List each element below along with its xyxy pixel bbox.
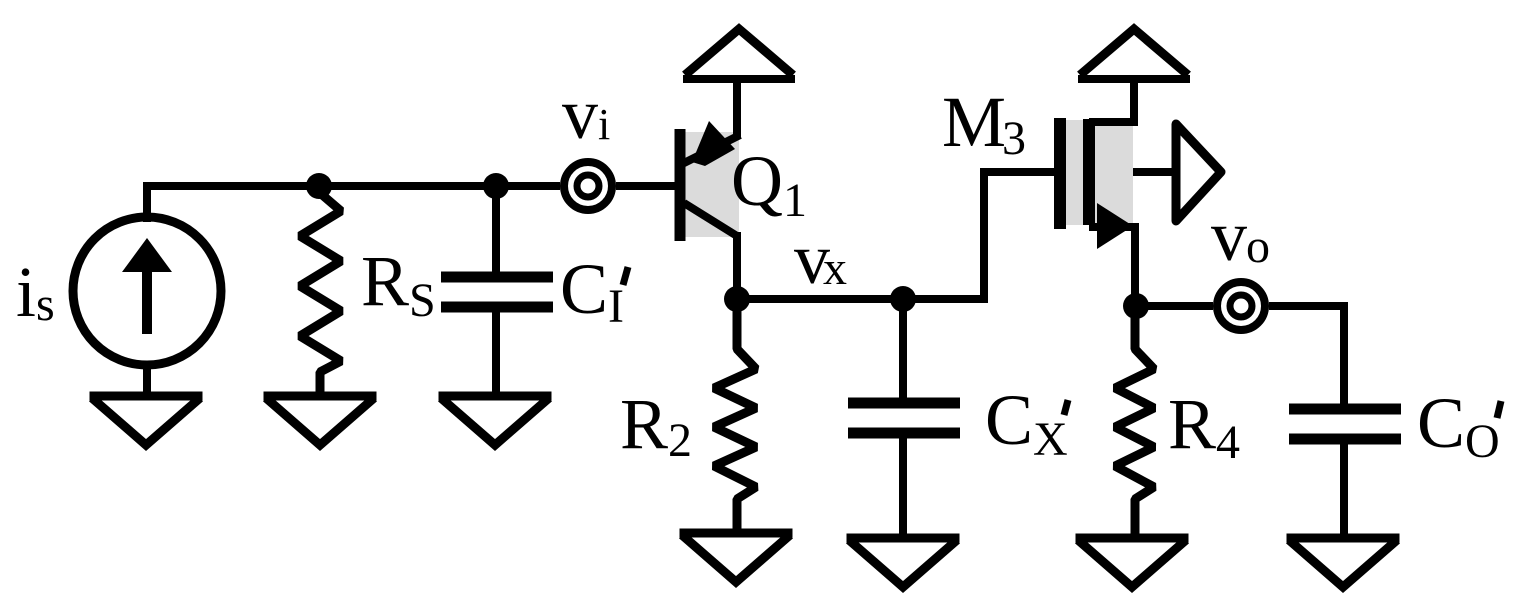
transistor M3 body lead: [1133, 168, 1172, 176]
wire: current source to ground: [143, 363, 151, 398]
wire: CX bottom plate to ground: [899, 438, 907, 540]
resistor R2: [714, 299, 756, 535]
node B (top rail / CI junction): [483, 173, 509, 199]
capacitor CI top plate: [441, 272, 553, 283]
svg-text:is: is: [16, 252, 55, 332]
transistor Q1 emitter arrowhead: [692, 121, 735, 166]
capacitor CO bottom plate: [1289, 434, 1401, 445]
svg-text:R4: R4: [1168, 384, 1240, 469]
resistor RS: [300, 186, 341, 398]
wire: top rail from current source to vi terminal: [147, 186, 560, 222]
transistor M3 gate bar: [1054, 118, 1066, 229]
svg-text:CO: CO: [1417, 383, 1500, 468]
capacitor CO top plate: [1289, 404, 1401, 415]
wire: Q1 collector down to node vx: [733, 232, 741, 299]
terminal vi outer ring: [564, 162, 612, 210]
svg-text:vo: vo: [1211, 196, 1270, 276]
capacitor CI bottom plate: [441, 302, 553, 313]
current source arrow shaft: [142, 266, 152, 334]
transistor Q1 emitter lead (diagonal): [682, 135, 740, 164]
current source arrowhead: [122, 238, 172, 272]
svg-text:R2: R2: [620, 384, 692, 467]
wire: node B to CI top plate: [492, 186, 500, 272]
ground (below R4): [1076, 534, 1189, 543]
supply VCC (above Q1): [683, 75, 795, 83]
capacitor CX top plate: [848, 398, 960, 409]
transistor Q1 body shading: [684, 132, 739, 237]
node vx2 (junction at CX): [890, 286, 916, 312]
wire: vi terminal to Q1 base: [616, 182, 676, 190]
terminal vo outer ring: [1217, 282, 1265, 330]
wire: node vo to vo terminal: [1136, 302, 1213, 310]
transistor M3 channel shading: [1066, 120, 1133, 225]
node A (top rail / RS junction): [306, 173, 332, 199]
svg-text:vx: vx: [794, 219, 847, 299]
capacitor CX bottom plate: [848, 428, 960, 439]
terminal vo inner ring: [1230, 295, 1252, 317]
ground (below CI): [439, 392, 552, 401]
node vx (junction at R2): [724, 286, 750, 312]
wire: CO bottom plate to ground: [1340, 444, 1348, 540]
ground (below RS): [264, 392, 377, 401]
wire: vx rail up to M3 gate: [984, 172, 1056, 299]
ground (below R2): [680, 529, 793, 538]
terminal vi inner ring: [577, 175, 599, 197]
transistor M3 body arrow (open triangle): [1176, 124, 1221, 221]
wire: Q1 emitter to supply: [733, 82, 741, 137]
node vo (junction at R4): [1123, 293, 1149, 319]
wire: node vx2 to CX top plate: [899, 299, 907, 398]
svg-text:M3: M3: [942, 82, 1026, 165]
supply VDD (above M3): [1078, 75, 1190, 83]
wire: vx rail: [737, 295, 988, 303]
current source is: [73, 217, 221, 365]
svg-text:CI: CI: [560, 249, 624, 333]
svg-text:CX: CX: [985, 380, 1068, 466]
transistor Q1 collector lead (diagonal): [684, 203, 737, 236]
resistor R4: [1115, 306, 1154, 540]
transistor Q1 base bar: [675, 129, 686, 241]
svg-text:Q1: Q1: [731, 141, 807, 227]
ground (below CO): [1287, 534, 1400, 543]
wire: CI bottom plate to ground: [492, 312, 500, 398]
transistor M3 drain lead: [1089, 82, 1134, 122]
ground (below current source): [90, 392, 203, 401]
transistor M3 source arrowhead: [1097, 203, 1133, 249]
svg-text:vi: vi: [562, 74, 610, 154]
svg-text:RS: RS: [361, 241, 436, 327]
ground (below CX): [847, 534, 960, 543]
wire: vo terminal to CO: [1269, 306, 1344, 404]
transistor M3 channel bar: [1083, 119, 1095, 225]
transistor M3 source lead: [1089, 227, 1135, 306]
